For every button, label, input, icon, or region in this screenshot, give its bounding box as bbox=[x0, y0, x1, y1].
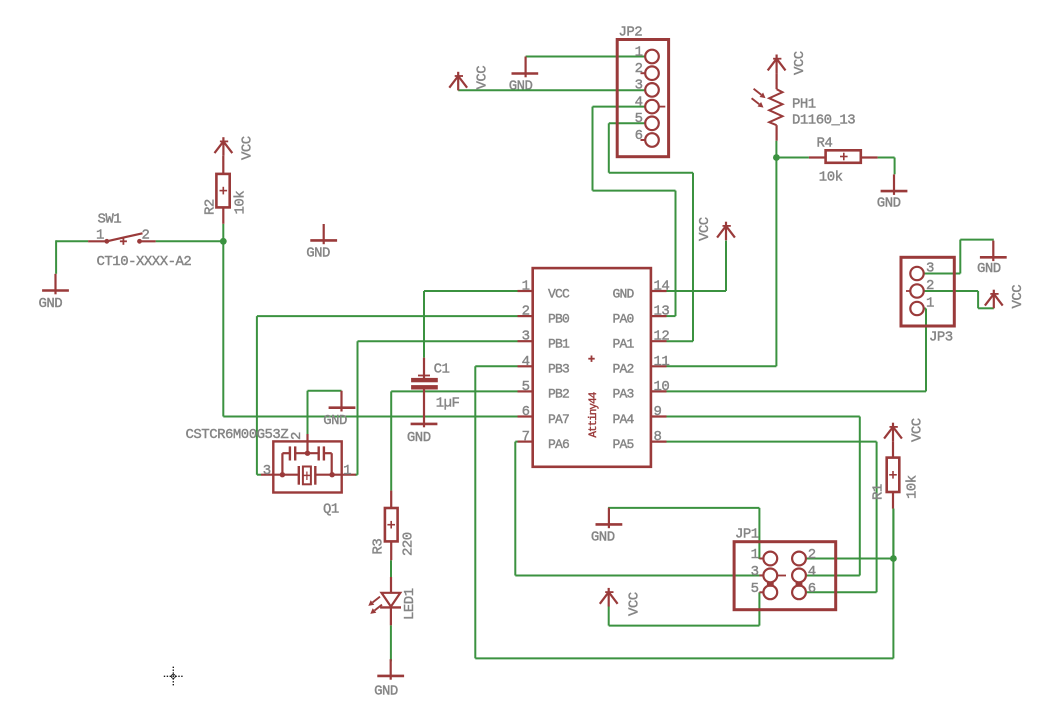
svg-text:JP3: JP3 bbox=[929, 330, 953, 346]
wire PB0 pin 2 to resonator pin 3 bbox=[257, 316, 518, 475]
svg-text:14: 14 bbox=[654, 279, 670, 295]
label PH1 name bbox=[792, 97, 816, 113]
wire PA0 pin 13 to JP2 pin 4 bbox=[593, 107, 676, 317]
svg-text:R4: R4 bbox=[817, 136, 833, 152]
svg-text:CSTCR6M00G53Z: CSTCR6M00G53Z bbox=[186, 427, 289, 443]
power VCC left of JP2 bbox=[449, 66, 490, 91]
connector JP3 body bbox=[901, 257, 954, 326]
label R2 name bbox=[203, 199, 219, 215]
label C1 value 1uF bbox=[436, 396, 460, 412]
pin number 11 of U1 bbox=[654, 354, 670, 370]
svg-text:2: 2 bbox=[142, 228, 150, 244]
pin number 3 of U1 bbox=[522, 329, 530, 345]
svg-text:8: 8 bbox=[654, 429, 662, 445]
pin name PA0 of U1 bbox=[612, 311, 633, 326]
svg-text:10: 10 bbox=[654, 379, 670, 395]
wire PA2 pin 11 to PH1/R4 junction bbox=[667, 141, 809, 367]
wire R4 right to GND bbox=[878, 158, 895, 175]
svg-text:10k: 10k bbox=[819, 170, 843, 186]
svg-text:1: 1 bbox=[522, 279, 530, 295]
wire PA1 pin 12 to JP2 pin 5 bbox=[609, 123, 693, 341]
pin name PA5 of U1 bbox=[612, 437, 633, 452]
svg-text:1: 1 bbox=[926, 296, 934, 312]
label C1 name bbox=[434, 362, 450, 378]
pin name PA3 of U1 bbox=[612, 387, 633, 402]
wire R1 bottom to junction bbox=[892, 509, 894, 559]
pin number 8 of U1 bbox=[654, 429, 662, 445]
wire PB1 pin 3 to resonator pin 1 bbox=[355, 341, 518, 475]
svg-text:VCC: VCC bbox=[792, 51, 808, 75]
pin number 2 of Q1 bbox=[289, 432, 305, 440]
pin number 1 of U1 bbox=[522, 279, 530, 295]
ground GND (left of SW1) bbox=[39, 274, 69, 312]
wire JP1 pin 1 to GND bbox=[608, 508, 759, 559]
pin number 4 of U1 bbox=[522, 354, 530, 370]
pin name PB3 of U1 bbox=[548, 362, 569, 377]
svg-text:7: 7 bbox=[522, 429, 530, 445]
svg-text:VCC: VCC bbox=[910, 418, 926, 442]
pin number 1 of JP2 bbox=[635, 44, 643, 60]
power VCC right of JP3 bbox=[985, 285, 1026, 309]
svg-text:5: 5 bbox=[751, 581, 759, 597]
wire PB3 pin 4 long net to JP1 pin 2 / R1 bbox=[475, 366, 893, 658]
svg-text:1: 1 bbox=[751, 547, 759, 563]
svg-text:12: 12 bbox=[654, 329, 670, 345]
resistor R3 bbox=[385, 491, 398, 561]
pin name PA2 of U1 bbox=[612, 362, 633, 377]
pin number 10 of U1 bbox=[654, 379, 670, 395]
svg-text:GND: GND bbox=[374, 684, 398, 700]
svg-text:PA5: PA5 bbox=[612, 437, 633, 452]
svg-text:PA4: PA4 bbox=[612, 412, 634, 427]
junction at PH1 / R4 node bbox=[773, 154, 780, 161]
pin name PA1 of U1 bbox=[612, 337, 634, 352]
svg-text:R2: R2 bbox=[203, 199, 219, 215]
label SW1 name bbox=[98, 212, 122, 228]
svg-text:6: 6 bbox=[808, 581, 816, 597]
svg-text:PA0: PA0 bbox=[612, 311, 633, 326]
svg-text:4: 4 bbox=[522, 354, 530, 370]
pin number 4 of JP1 bbox=[808, 564, 816, 580]
pin name PA6 of U1 bbox=[548, 437, 569, 452]
svg-text:C1: C1 bbox=[434, 362, 450, 378]
svg-text:3: 3 bbox=[263, 463, 271, 479]
svg-text:SW1: SW1 bbox=[98, 212, 122, 228]
svg-text:1µF: 1µF bbox=[436, 396, 460, 412]
svg-text:PB2: PB2 bbox=[548, 387, 569, 402]
pin number 5 of JP2 bbox=[635, 111, 643, 127]
svg-text:GND: GND bbox=[509, 79, 533, 95]
svg-text:PA6: PA6 bbox=[548, 437, 569, 452]
label JP2 name bbox=[619, 25, 643, 41]
svg-text:JP1: JP1 bbox=[735, 527, 759, 543]
wire R2 bottom to junction bbox=[222, 224, 224, 242]
svg-text:PA7: PA7 bbox=[548, 412, 569, 427]
pin number 2 of JP1 bbox=[808, 547, 816, 563]
wire VCC pin 1 to C1 bbox=[424, 291, 518, 358]
power VCC above R1 bbox=[884, 418, 925, 442]
label R4 value 10k bbox=[819, 170, 843, 186]
pin number 5 of U1 bbox=[522, 379, 530, 395]
pin number 4 of JP2 bbox=[635, 94, 643, 110]
pin number 3 of JP2 bbox=[635, 78, 643, 94]
capacitor C1 bbox=[411, 358, 438, 428]
connector JP1 body bbox=[734, 542, 836, 610]
pin number 9 of U1 bbox=[654, 404, 662, 420]
connector JP2 body bbox=[617, 40, 668, 157]
svg-text:GND: GND bbox=[306, 246, 330, 262]
label R3 value 220 bbox=[401, 532, 417, 556]
svg-text:R1: R1 bbox=[871, 484, 887, 500]
junction at R1 / JP1 pin 2 node bbox=[890, 555, 897, 562]
label JP1 name bbox=[735, 527, 759, 543]
svg-text:2: 2 bbox=[635, 61, 643, 77]
photoresistor PH1 bbox=[752, 73, 783, 141]
power VCC below JP1 bbox=[600, 588, 643, 616]
ground GND right of JP3 bbox=[977, 241, 1007, 277]
label R3 name bbox=[370, 539, 386, 555]
svg-text:2: 2 bbox=[522, 304, 530, 320]
wire JP1 pin 5 to VCC bbox=[609, 592, 760, 625]
pin name PB1 of U1 bbox=[548, 337, 570, 352]
pin number 6 of JP2 bbox=[635, 128, 643, 144]
svg-text:VCC: VCC bbox=[1010, 285, 1026, 309]
connector JP3 pins bbox=[906, 267, 924, 315]
wire GND pin 14 to VCC arrow bbox=[667, 241, 727, 291]
svg-text:GND: GND bbox=[323, 413, 347, 429]
svg-text:1: 1 bbox=[96, 228, 104, 244]
power VCC above PH1 bbox=[768, 51, 808, 75]
wire PA5 pin 8 to JP1 pin 6 bbox=[667, 442, 877, 593]
wire GND net to SW1 pin 1 bbox=[56, 240, 88, 273]
pin number 13 of U1 bbox=[654, 304, 670, 320]
svg-text:1: 1 bbox=[635, 44, 643, 60]
svg-text:PB1: PB1 bbox=[548, 337, 570, 352]
label Q1 value CSTCR6M00G53Z bbox=[186, 427, 289, 443]
pin number 3 of Q1 bbox=[263, 463, 271, 479]
wire PB2 pin 5 to R3 bbox=[391, 391, 517, 490]
svg-text:D1160_13: D1160_13 bbox=[792, 113, 855, 129]
wire JP2 pin 3 to VCC bbox=[458, 89, 645, 91]
junction at SW1/R2 node bbox=[220, 238, 227, 245]
svg-text:GND: GND bbox=[877, 196, 901, 212]
label U1 value Attiny44 bbox=[588, 391, 600, 437]
label SW1 value CT10-XXXX-A2 bbox=[97, 254, 192, 270]
svg-text:Q1: Q1 bbox=[323, 502, 339, 518]
ground GND above JP1 bbox=[591, 508, 622, 546]
pin number 14 of U1 bbox=[654, 279, 670, 295]
label LED1 name bbox=[402, 588, 418, 620]
label JP3 name bbox=[929, 330, 953, 346]
wire JP3 pin 2 to VCC bbox=[924, 291, 994, 308]
svg-text:6: 6 bbox=[635, 128, 643, 144]
svg-text:4: 4 bbox=[635, 94, 643, 110]
svg-text:GND: GND bbox=[612, 286, 634, 301]
wire PA3 pin 10 to JP3 pin 1 bbox=[667, 309, 927, 392]
label R4 name bbox=[817, 136, 833, 152]
pin number 3 of JP1 bbox=[751, 564, 759, 580]
ground GND right of resonator bbox=[323, 391, 355, 429]
pin number 2 of JP2 bbox=[635, 61, 643, 77]
svg-text:JP2: JP2 bbox=[619, 25, 643, 41]
LED LED1 bbox=[368, 577, 401, 625]
origin cross marker bbox=[164, 667, 184, 687]
svg-text:GND: GND bbox=[407, 430, 431, 446]
pin number 7 of U1 bbox=[522, 429, 530, 445]
svg-text:CT10-XXXX-A2: CT10-XXXX-A2 bbox=[97, 254, 192, 270]
svg-text:2: 2 bbox=[289, 432, 305, 440]
svg-text:GND: GND bbox=[977, 261, 1001, 277]
connector JP1 pins bbox=[759, 552, 805, 600]
ground GND below LED1 bbox=[374, 659, 404, 699]
svg-text:GND: GND bbox=[591, 530, 615, 546]
svg-text:3: 3 bbox=[635, 78, 643, 94]
ground GND standalone (middle) bbox=[306, 224, 337, 262]
label R2 value 10k bbox=[233, 191, 249, 215]
wire PA4 pin 9 to JP1 pin 4 bbox=[667, 417, 860, 576]
svg-text:Attiny44: Attiny44 bbox=[588, 391, 600, 437]
resistor R1 bbox=[887, 441, 900, 508]
svg-text:220: 220 bbox=[401, 532, 417, 556]
label R1 name bbox=[871, 484, 887, 500]
wire junction down to PA7 pin 6 bbox=[223, 241, 517, 416]
pin name PA4 of U1 bbox=[612, 412, 634, 427]
power VCC at pin 14 bbox=[697, 217, 735, 241]
svg-text:LED1: LED1 bbox=[402, 588, 418, 620]
svg-text:3: 3 bbox=[522, 329, 530, 345]
pin name VCC of U1 bbox=[548, 286, 570, 301]
pin number 1 of JP3 bbox=[926, 296, 934, 312]
IC U1 polarity mark bbox=[588, 356, 594, 362]
IC U1 Attiny44 body bbox=[533, 268, 651, 467]
pin number 5 of JP1 bbox=[751, 581, 759, 597]
svg-text:9: 9 bbox=[654, 404, 662, 420]
pin name PB2 of U1 bbox=[548, 387, 569, 402]
svg-text:4: 4 bbox=[808, 564, 816, 580]
svg-text:10k: 10k bbox=[233, 191, 249, 215]
svg-text:PA3: PA3 bbox=[612, 387, 633, 402]
svg-text:3: 3 bbox=[751, 564, 759, 580]
label PH1 value D1160_13 bbox=[792, 113, 855, 129]
wire resonator pin 2 to GND bbox=[308, 391, 342, 434]
pin name GND of U1 bbox=[612, 286, 634, 301]
svg-text:PA1: PA1 bbox=[612, 337, 634, 352]
resonator Q1 bbox=[261, 434, 356, 493]
wire PA6 pin 7 to JP1 pin 3 bbox=[515, 442, 764, 576]
wire LED1 cathode to GND bbox=[390, 625, 392, 661]
label Q1 name bbox=[323, 502, 339, 518]
ground GND near JP2 bbox=[509, 57, 539, 95]
resistor R4 bbox=[809, 150, 878, 163]
wire JP2 pin 1 to GND bbox=[526, 56, 645, 58]
svg-text:2: 2 bbox=[808, 547, 816, 563]
svg-text:PA2: PA2 bbox=[612, 362, 633, 377]
svg-text:10k: 10k bbox=[905, 475, 921, 499]
svg-text:5: 5 bbox=[635, 111, 643, 127]
svg-text:2: 2 bbox=[926, 278, 934, 294]
svg-text:6: 6 bbox=[522, 404, 530, 420]
ground GND below C1 bbox=[407, 424, 438, 446]
connector JP2 pins bbox=[641, 50, 666, 147]
wire SW1 pin2 to junction bbox=[156, 240, 224, 242]
svg-text:VCC: VCC bbox=[548, 286, 570, 301]
svg-text:VCC: VCC bbox=[475, 66, 491, 90]
svg-text:11: 11 bbox=[654, 354, 670, 370]
svg-text:PB3: PB3 bbox=[548, 362, 569, 377]
pin number 12 of U1 bbox=[654, 329, 670, 345]
pin number 1 of JP1 bbox=[751, 547, 759, 563]
IC U1 pin stubs bbox=[518, 291, 667, 442]
ground GND right of R4 bbox=[877, 174, 908, 211]
pin number 1 of Q1 bbox=[343, 463, 351, 479]
svg-text:1: 1 bbox=[343, 463, 351, 479]
wire JP3 pin 3 to GND bbox=[924, 240, 994, 274]
svg-text:VCC: VCC bbox=[627, 592, 643, 616]
power VCC above R2 bbox=[215, 136, 256, 160]
pin number 6 of JP1 bbox=[808, 581, 816, 597]
svg-text:PB0: PB0 bbox=[548, 311, 569, 326]
svg-text:5: 5 bbox=[522, 379, 530, 395]
pin number 3 of JP3 bbox=[926, 261, 934, 277]
label R1 value 10k bbox=[905, 475, 921, 499]
pin number 2 of JP3 bbox=[926, 278, 934, 294]
pin name PA7 of U1 bbox=[548, 412, 569, 427]
switch SW1 bbox=[88, 233, 156, 245]
pin number 2 of U1 bbox=[522, 304, 530, 320]
pin name PB0 of U1 bbox=[548, 311, 569, 326]
svg-text:13: 13 bbox=[654, 304, 670, 320]
wire R3 bottom to LED1 bbox=[390, 560, 392, 577]
pin number 1 of SW1 bbox=[96, 228, 104, 244]
svg-text:R3: R3 bbox=[370, 539, 386, 555]
pin number 2 of SW1 bbox=[142, 228, 150, 244]
svg-text:VCC: VCC bbox=[240, 136, 256, 160]
resistor R2 bbox=[216, 156, 229, 224]
svg-text:3: 3 bbox=[926, 261, 934, 277]
svg-text:PH1: PH1 bbox=[792, 97, 816, 113]
svg-text:VCC: VCC bbox=[697, 217, 713, 241]
svg-text:GND: GND bbox=[39, 296, 63, 312]
pin number 6 of U1 bbox=[522, 404, 530, 420]
